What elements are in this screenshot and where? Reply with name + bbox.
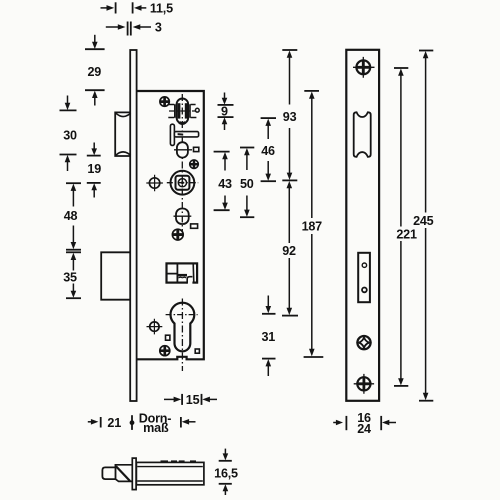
euro profile cylinder xyxy=(171,303,195,352)
187 arrows xyxy=(309,92,315,99)
11,5 arrows xyxy=(107,5,115,11)
35 arrows xyxy=(71,253,77,260)
small rect right of oval cam 2 xyxy=(194,147,199,151)
dim 46 xyxy=(261,117,276,119)
46 arrows xyxy=(265,119,271,126)
bracket bars flanking follower oval xyxy=(175,104,190,117)
Dornmass centre marker dot xyxy=(130,420,135,425)
small rect right of oval cam 3 xyxy=(191,224,198,228)
follower hub inner circle xyxy=(178,179,186,187)
245 arrows xyxy=(423,51,429,58)
latch cutout front view xyxy=(354,112,371,157)
deadbolt mechanism block xyxy=(167,263,198,282)
T-lever vertical bar xyxy=(170,124,174,145)
latch top concave arc xyxy=(116,113,131,116)
faceplate front outline xyxy=(346,50,379,401)
3 arrows xyxy=(118,24,126,30)
dim 9 xyxy=(218,104,234,106)
insert hole 1 xyxy=(362,263,366,267)
svg-text:maß: maß xyxy=(143,421,169,435)
horizontal centerline through follower oval xyxy=(169,110,196,112)
dim 245 xyxy=(419,50,433,52)
svg-text:93: 93 xyxy=(283,110,297,124)
deadbolt side view xyxy=(101,252,131,299)
48 arrows xyxy=(71,184,77,191)
svg-text:46: 46 xyxy=(261,144,275,158)
dim 35 ticks xyxy=(66,251,81,253)
16/24 arrows xyxy=(336,420,343,426)
svg-text:92: 92 xyxy=(282,244,296,258)
svg-text:245: 245 xyxy=(413,214,434,228)
50 arrows xyxy=(244,148,250,155)
torx screw front view xyxy=(357,336,370,349)
dim 48 ticks xyxy=(66,182,81,184)
dim 15 xyxy=(164,398,174,400)
dim 92 xyxy=(282,315,298,317)
Dornmass arrow left-pointing xyxy=(182,419,189,425)
small square right of cylinder xyxy=(195,349,199,353)
svg-text:35: 35 xyxy=(63,271,77,285)
vertical centerline of component column xyxy=(181,94,183,232)
dim 30 ticks xyxy=(60,109,77,111)
dim 93 xyxy=(282,49,297,51)
latch bottom concave arc xyxy=(116,152,131,155)
striker insert plate xyxy=(358,253,370,302)
svg-text:15: 15 xyxy=(186,393,200,407)
dim 43 xyxy=(214,151,230,153)
21 arrow right-pointing xyxy=(91,419,99,425)
latch nose xyxy=(102,467,115,479)
arrowheads xyxy=(65,5,429,491)
oval cam 3 xyxy=(176,209,189,225)
221 arrows xyxy=(398,69,404,76)
svg-text:50: 50 xyxy=(240,177,254,191)
svg-text:3: 3 xyxy=(155,21,162,35)
svg-text:19: 19 xyxy=(87,162,101,176)
svg-text:48: 48 xyxy=(64,209,78,223)
16,5 arrows xyxy=(223,453,229,460)
insert hole 2 xyxy=(362,288,367,293)
cross circle left of hub xyxy=(149,178,159,188)
29 arrows xyxy=(92,42,98,49)
dim 31 xyxy=(262,313,276,315)
92 arrows xyxy=(287,181,293,188)
dim 19 ticks xyxy=(87,155,101,157)
svg-text:221: 221 xyxy=(396,227,417,241)
dim 11,5 xyxy=(101,7,108,9)
small square left of cylinder xyxy=(166,335,170,340)
cylinder vertical centerline xyxy=(181,299,183,372)
dim 187 xyxy=(304,90,319,92)
oval cam 2 xyxy=(177,142,188,157)
dim 29 ticks xyxy=(85,48,105,50)
follower hub outer circle xyxy=(171,171,195,195)
screw S3 xyxy=(172,229,183,240)
15 arrows xyxy=(174,397,182,403)
bottom screw front view xyxy=(357,377,370,390)
latch bevel diagonal xyxy=(116,466,130,481)
svg-text:9: 9 xyxy=(221,105,228,119)
svg-text:21: 21 xyxy=(107,416,121,430)
cylinder horizontal centerline xyxy=(166,314,198,316)
T-lever dark wedge xyxy=(178,133,184,136)
30 arrows xyxy=(65,103,71,110)
small circle right of follower oval xyxy=(195,108,199,112)
latch follower oval with hatch bars xyxy=(177,99,189,124)
svg-text:31: 31 xyxy=(261,330,275,344)
screw S1 top-left of case xyxy=(160,97,169,106)
latch bevel top edge xyxy=(115,465,132,468)
9 arrows xyxy=(222,98,228,105)
dim 21 / Dornmass xyxy=(88,421,92,423)
svg-text:11,5: 11,5 xyxy=(150,1,173,15)
dim 16,5 xyxy=(219,460,232,462)
31 arrows xyxy=(266,306,272,313)
faceplate cross-section xyxy=(132,458,136,490)
dim 3 xyxy=(106,26,119,28)
screw S2 xyxy=(190,160,199,169)
cross circle lower-left xyxy=(150,322,159,331)
svg-text:29: 29 xyxy=(87,65,101,79)
19 arrows xyxy=(91,148,97,155)
top screw front view xyxy=(356,60,370,74)
dim 50 xyxy=(240,147,254,149)
dim 16/24 xyxy=(333,422,336,424)
svg-text:16,5: 16,5 xyxy=(214,467,238,481)
latch bevel bottom edge xyxy=(115,479,132,481)
faceplate side view (thin vertical strip) xyxy=(130,50,136,401)
svg-text:187: 187 xyxy=(302,220,323,234)
svg-text:43: 43 xyxy=(218,177,232,191)
T-lever horizontal arm xyxy=(174,132,198,137)
lock case outline xyxy=(137,91,204,359)
dimension labels xyxy=(63,1,434,480)
body top bumps xyxy=(161,460,169,462)
follower hub horizontal centerline xyxy=(167,182,198,184)
svg-text:30: 30 xyxy=(63,129,77,143)
svg-text:24: 24 xyxy=(357,422,371,436)
dim 221 xyxy=(394,67,408,69)
93 arrows xyxy=(287,51,293,58)
43 arrows xyxy=(222,152,228,159)
latch bolt side view (spool) xyxy=(115,112,131,156)
lock body cross-section xyxy=(136,462,204,484)
follower hub square xyxy=(176,176,190,190)
screw S4 xyxy=(160,346,170,356)
deadbolt block notch (white cutout) xyxy=(187,277,192,285)
